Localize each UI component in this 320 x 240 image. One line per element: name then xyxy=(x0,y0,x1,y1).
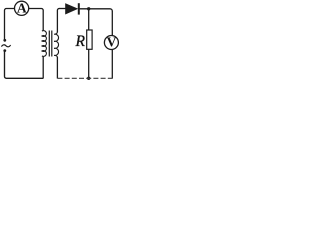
wire: top rail from secondary to diode xyxy=(59,8,66,10)
svg-text:V: V xyxy=(107,35,117,50)
AC source terminal dot bottom xyxy=(3,49,6,52)
svg-text:R: R xyxy=(75,33,86,50)
diode D1 cathode bar xyxy=(78,3,80,14)
diode D1 triangle xyxy=(66,4,78,14)
wire: top rail from diode to right corner xyxy=(80,9,113,11)
resistor R value label xyxy=(75,33,86,50)
wire: right vertical upper (to voltmeter) xyxy=(111,11,113,36)
wire: secondary bottom lead xyxy=(56,57,58,79)
wire: right vertical lower xyxy=(111,49,113,78)
transformer primary winding L1 xyxy=(42,30,46,57)
wire: primary bottom lead xyxy=(42,57,44,79)
AC source tilde symbol xyxy=(1,45,10,47)
svg-text:A: A xyxy=(17,0,27,15)
transformer core line left xyxy=(48,31,50,57)
wire: resistor bottom lead xyxy=(88,49,90,78)
wire: secondary top lead up to top rail xyxy=(57,9,59,33)
wire: left loop top-right segment and primary top lead xyxy=(29,9,44,31)
wire: resistor top lead xyxy=(88,9,90,30)
transformer core line right xyxy=(51,31,53,57)
wire: bottom rail dashed (secondary side) xyxy=(57,77,112,79)
voltmeter V1 xyxy=(104,35,118,50)
ammeter A1 xyxy=(15,0,29,15)
transformer secondary winding L2 xyxy=(54,32,58,58)
AC source terminal dot top xyxy=(3,39,6,42)
wire: left loop top-left corner and source top lead xyxy=(5,9,16,40)
wire: source bottom lead and left loop bottom (solid) xyxy=(5,51,44,79)
resistor R box xyxy=(87,30,92,49)
junction dot top (node a) xyxy=(87,7,90,10)
junction dot bottom (node b) xyxy=(87,77,90,80)
